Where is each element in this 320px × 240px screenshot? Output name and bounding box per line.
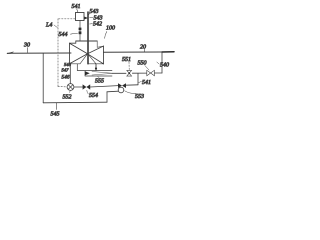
orifice 544 lower block <box>79 31 82 34</box>
wire bypass line y73 <box>112 72 162 74</box>
leader for label 543 <box>89 13 90 14</box>
connector box to pipe with arrow <box>84 17 88 20</box>
leader 550 <box>145 66 149 71</box>
thick pilot pipe 542 vertical <box>87 12 89 64</box>
svg-text:100: 100 <box>106 26 115 32</box>
svg-text:540: 540 <box>160 62 169 69</box>
valve 560 bowtie outline <box>147 70 155 76</box>
wire right riser <box>161 52 163 73</box>
svg-text:546: 546 <box>62 74 70 80</box>
valve bottom edge left <box>70 63 81 65</box>
svg-text:547: 547 <box>62 68 70 73</box>
orifice 544 upper block <box>79 28 82 31</box>
four-way valve body: top bar <box>76 40 97 42</box>
leader for label 544 <box>71 32 78 35</box>
riser to bypass line <box>137 74 139 85</box>
arrowhead left end of pipe 30 <box>7 52 14 54</box>
wire check valve to valve 553 <box>90 86 118 87</box>
svg-text:544: 544 <box>59 31 68 38</box>
svg-text:553: 553 <box>135 94 144 100</box>
leader for label 20 <box>143 49 145 52</box>
wire bottom return line <box>43 101 107 104</box>
valve 551 vertical bowtie with dot <box>127 70 132 76</box>
leader for label 100 <box>105 32 107 39</box>
svg-text:552: 552 <box>63 95 72 101</box>
leader tick for 543a <box>90 16 93 18</box>
leader for label 541 <box>77 9 78 12</box>
solenoid valve box 541 <box>76 13 85 21</box>
leader 555 <box>98 76 99 78</box>
leader for label 542 <box>90 23 93 25</box>
svg-text:542: 542 <box>93 21 102 28</box>
svg-text:30: 30 <box>23 43 30 49</box>
svg-text:541: 541 <box>142 79 151 86</box>
svg-text:548: 548 <box>64 62 72 67</box>
leader 545 <box>55 103 57 110</box>
leader 554 <box>87 90 89 94</box>
leader 540 dash <box>157 62 160 64</box>
valve right triangle <box>88 46 104 64</box>
ejector nozzle arrow <box>85 71 90 75</box>
ejector 555 body <box>85 71 112 77</box>
wire left drop from main pipe <box>42 53 44 103</box>
wire jog to 553 actuator <box>107 90 118 93</box>
dashed control line horizontal top <box>58 18 75 20</box>
wire 553 to riser <box>126 84 138 86</box>
svg-text:541: 541 <box>72 3 81 10</box>
wire bottom jog up <box>106 92 108 102</box>
svg-text:543: 543 <box>90 8 99 15</box>
ejector internal converging lines <box>92 72 112 76</box>
leader L4 <box>54 25 57 28</box>
wire main pipe bold right end <box>162 51 174 53</box>
leader for label 30 <box>26 48 28 53</box>
dashed control line vertical <box>57 19 59 87</box>
pump 552 circle with cross <box>67 84 74 91</box>
junction blob at ejector suction <box>95 67 97 69</box>
port stub x77 down <box>77 64 84 71</box>
valve 553 filled bowtie <box>118 83 126 88</box>
dashed control line to pump <box>58 86 67 88</box>
port stub x96 (ejector suction) <box>95 64 97 71</box>
check valve 554 filled bowtie <box>83 84 91 89</box>
leader 551 dashed <box>128 62 130 70</box>
wire main pipe right segment <box>104 51 163 53</box>
valve bottom edge right <box>88 63 104 65</box>
valve 553 actuator circle <box>118 87 124 93</box>
leader 552 <box>69 91 72 93</box>
svg-text:L4: L4 <box>45 22 52 29</box>
valve top-left step <box>70 41 76 43</box>
svg-text:545: 545 <box>51 111 60 118</box>
valve bottom diagonal right <box>88 54 96 64</box>
svg-text:543: 543 <box>94 15 103 22</box>
leader 541 right <box>139 81 142 82</box>
port stub bottom-left of valve down to pump <box>69 64 71 84</box>
thin pilot line from box bottom <box>79 21 81 42</box>
valve bottom diagonal left <box>80 54 88 64</box>
leader 553 <box>125 91 136 94</box>
valve left triangle <box>70 43 88 64</box>
valve top-right step <box>97 41 103 47</box>
wire main pipe left segment <box>8 52 72 54</box>
svg-text:551: 551 <box>122 57 131 63</box>
svg-text:20: 20 <box>140 45 146 51</box>
wire pump to check valve <box>74 86 83 88</box>
svg-text:554: 554 <box>89 92 98 99</box>
svg-text:555: 555 <box>95 79 104 85</box>
